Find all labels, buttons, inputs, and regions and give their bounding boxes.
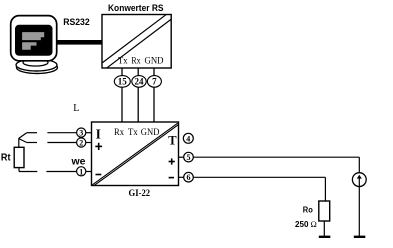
svg-text:Rt: Rt bbox=[1, 153, 11, 164]
svg-text:Ω: Ω bbox=[311, 219, 317, 229]
svg-text:250: 250 bbox=[295, 220, 309, 229]
svg-text:4: 4 bbox=[186, 134, 190, 143]
svg-text:GI-22: GI-22 bbox=[129, 189, 151, 199]
computer (PC monitor) icon bbox=[11, 16, 58, 74]
wire current source to ground bbox=[358, 186, 360, 236]
terminal 1 bbox=[77, 167, 92, 177]
svg-text:Rx: Rx bbox=[114, 128, 124, 138]
svg-text:15: 15 bbox=[118, 77, 128, 87]
svg-text:7: 7 bbox=[152, 77, 157, 87]
RS232 cable (thick wire) bbox=[58, 40, 103, 45]
terminal 15 bbox=[114, 68, 130, 87]
input minus sign bbox=[96, 174, 102, 176]
wire Tx down bbox=[121, 87, 123, 122]
terminal 4 bbox=[183, 133, 193, 143]
transducer box GI-22 bbox=[92, 122, 179, 186]
resistor Ro bbox=[319, 201, 330, 221]
ground bar right bbox=[354, 236, 366, 238]
svg-text:RS232: RS232 bbox=[63, 17, 89, 28]
wire from terminal 6 to Ro bbox=[193, 177, 325, 201]
wire Rx down bbox=[137, 87, 139, 122]
output plus sign bbox=[169, 158, 175, 164]
svg-text:2: 2 bbox=[79, 139, 83, 148]
output minus sign bbox=[169, 177, 174, 179]
isolation diagonal lines of GI-22 bbox=[92, 123, 178, 185]
svg-text:GND: GND bbox=[141, 128, 160, 138]
wire from terminal 5 to current source bbox=[193, 157, 359, 173]
svg-text:3: 3 bbox=[79, 129, 83, 138]
svg-text:we: we bbox=[70, 157, 85, 168]
svg-text:GND: GND bbox=[145, 56, 164, 67]
wire to terminal 2 (with break) bbox=[19, 139, 77, 143]
terminal 3 bbox=[77, 128, 92, 138]
terminal 6 bbox=[179, 172, 194, 182]
svg-text:Rx: Rx bbox=[131, 56, 140, 67]
terminal 7 bbox=[147, 68, 161, 87]
wire Ro to ground bbox=[323, 221, 325, 237]
svg-text:T: T bbox=[168, 134, 177, 148]
wire Rt bottom to terminal 1 (with break) bbox=[19, 168, 77, 172]
svg-text:6: 6 bbox=[187, 173, 191, 182]
terminal 24 bbox=[132, 68, 146, 87]
converter pin labels Tx Rx GND bbox=[118, 56, 164, 67]
svg-text:5: 5 bbox=[187, 153, 191, 162]
current source (output current loop) bbox=[352, 173, 366, 187]
wire fork to Rt top bbox=[18, 139, 20, 148]
GI-22 pin labels Rx Tx GND bbox=[114, 128, 160, 138]
terminal 5 bbox=[179, 152, 194, 162]
resistor Rt bbox=[14, 147, 24, 167]
svg-text:I: I bbox=[96, 126, 101, 141]
svg-text:Konwerter RS: Konwerter RS bbox=[108, 3, 164, 13]
svg-text:1: 1 bbox=[79, 167, 83, 176]
svg-text:Ro: Ro bbox=[303, 206, 313, 215]
wire to terminal 3 (with break) bbox=[19, 133, 77, 139]
svg-text:L: L bbox=[73, 103, 79, 114]
ground bar left bbox=[319, 236, 331, 238]
converter box U1 "Konwerter RS" bbox=[102, 15, 171, 69]
svg-text:Tx: Tx bbox=[118, 56, 128, 67]
input plus sign bbox=[95, 143, 102, 150]
wire GND down bbox=[153, 87, 155, 122]
svg-text:Tx: Tx bbox=[128, 128, 138, 138]
svg-text:24: 24 bbox=[135, 77, 145, 87]
terminal 2 bbox=[77, 138, 92, 148]
isolation diagonal lines of converter bbox=[103, 15, 171, 68]
